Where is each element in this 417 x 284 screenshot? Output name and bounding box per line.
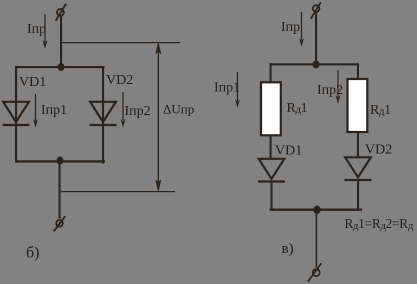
dimension line ΔUпр (156, 43, 161, 190)
wire: right branch lower vertical (right circuit) (357, 180, 359, 211)
wire: ΔUпр top extension line (62, 42, 180, 43)
svg-text:Rд1: Rд1 (370, 103, 391, 118)
current arrow Iпр2 (right circuit) (336, 70, 340, 103)
svg-text:Iпр1: Iпр1 (214, 81, 240, 96)
wire: right branch vertical (left circuit) (102, 66, 104, 164)
wire: right branch upper vertical (right circuit) (357, 63, 359, 79)
terminal bottom-right (308, 263, 322, 282)
diode VD2 (right circuit) (345, 157, 372, 180)
svg-text:в): в) (282, 241, 294, 257)
current arrow Iпр (right) (300, 12, 304, 46)
svg-text:Iпр1: Iпр1 (41, 103, 67, 118)
wire: bottom horizontal (left circuit) (15, 160, 105, 162)
wire: left branch upper vertical (right circuit) (270, 63, 272, 83)
svg-text:Iпр2: Iпр2 (125, 104, 151, 119)
terminal bottom-left (54, 216, 65, 231)
current arrow Iпр (left) (43, 14, 47, 48)
wire: left branch middle vertical (right circuit) (270, 135, 272, 158)
svg-text:Iпр2: Iпр2 (317, 83, 343, 98)
wire: right branch middle vertical (right circuit) (357, 132, 359, 157)
svg-text:Iпр: Iпр (281, 20, 300, 35)
wire: bottom vertical to terminal (left circuit) (59, 160, 61, 219)
diode VD2 (left circuit) (90, 102, 117, 125)
wire: left branch vertical (left circuit) (15, 66, 17, 163)
node: top junction (left circuit) (58, 63, 65, 71)
svg-text:VD2: VD2 (106, 73, 133, 88)
svg-text:VD1: VD1 (275, 144, 302, 159)
diode VD1 (left circuit) (3, 102, 30, 125)
svg-text:Iпр: Iпр (27, 22, 46, 37)
wire: bottom vertical to terminal (right circuit) (316, 210, 318, 268)
terminal top-left (56, 4, 66, 21)
svg-text:VD2: VD2 (365, 143, 392, 158)
wire: ΔUпр bottom extension line (61, 191, 175, 192)
diode VD1 (right circuit) (258, 159, 285, 182)
wire: right top vertical (315, 12, 317, 66)
svg-text:VD1: VD1 (19, 75, 46, 90)
node: bottom junction (right circuit) (313, 206, 320, 214)
wire: top horizontal (left circuit) (15, 66, 105, 68)
current arrow Iпр1 (left circuit) (34, 94, 38, 127)
wire: bottom horizontal (right circuit) (270, 209, 363, 211)
resistor Rд1 (left branch) (261, 82, 281, 135)
terminal top-right (311, 2, 321, 19)
current arrow Iпр2 (left circuit) (121, 92, 125, 126)
svg-text:Rд1: Rд1 (287, 101, 308, 116)
svg-text:б): б) (26, 245, 39, 262)
svg-text:ΔUпр: ΔUпр (163, 102, 194, 117)
wire: left top vertical (60, 16, 62, 68)
wire: left branch lower vertical (right circuit) (271, 181, 273, 211)
node: bottom junction (left circuit) (57, 157, 64, 165)
wire: top horizontal (right circuit) (270, 63, 359, 65)
current arrow Iпр1 (right circuit) (236, 72, 240, 107)
resistor Rд1 (right branch) (348, 79, 368, 132)
node: top junction (right circuit) (312, 61, 319, 69)
